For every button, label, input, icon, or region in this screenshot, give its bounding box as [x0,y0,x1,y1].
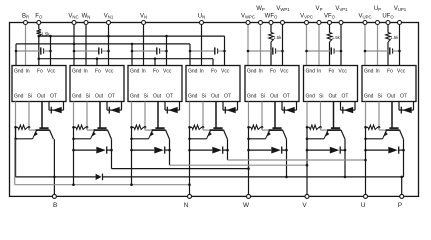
wire xFO terminal to resistor [270,23,272,33]
wire xFO terminal to resistor [329,23,331,33]
wire OT loop left stub block5 [281,102,283,111]
wire collector U-low to U bus [227,139,229,160]
svg-text:Gnd: Gnd [130,69,140,75]
svg-text:1.5k: 1.5k [273,35,282,40]
junction W bus / W riser [247,167,250,170]
junction resistor right block7 [378,126,381,129]
wire OT loop right stub block4 [237,102,239,111]
wire Gnd/emitter stub block1 [15,127,17,177]
junction Gnd stub/cap line [305,50,308,53]
wire FWD cathode block2 [107,149,112,151]
diode freewheel D6 [330,147,340,154]
capacitor Vcc-Gnd decoupling [156,47,158,54]
svg-text:VNC: VNC [68,14,78,20]
wire OT loop right stub block7 [413,102,415,111]
capacitor Vcc-Gnd decoupling [214,47,216,54]
driver IC block U6 [304,66,358,102]
svg-text:Fo: Fo [329,69,335,75]
junction resistor right block2 [86,126,89,129]
capacitor Vcc-Gnd decoupling [272,47,274,54]
diode freewheel D5 [271,147,281,154]
wire resistor to Fo pin [270,42,272,66]
wire resistor to Fo pin [329,42,331,66]
junction Gnd stub/cap line [247,50,250,53]
wire FWD cathode block4 [223,149,228,151]
wire xFO terminal to resistor [387,23,389,33]
wire OT loop bottom block3 [165,109,180,111]
wire Fo stub block3 [154,59,156,66]
wire Fo stub block2 [96,59,98,66]
wire FWD cathode block3 [165,149,170,151]
svg-text:FO: FO [35,14,43,20]
wire emitter block4 [190,138,207,140]
svg-text:WP: WP [256,6,265,12]
wire capacitor to Vcc [276,50,283,52]
driver IC block U4 [186,66,240,102]
wire collector W-high to P bus [286,139,288,177]
wire Gnd/emitter stub block7 [365,127,367,196]
wire Si to channel bar block1 [28,127,30,130]
terminal B [52,194,56,198]
capacitor Vcc-Gnd decoupling [40,47,42,54]
wire FO resistor down to block1 Fo pin [38,36,40,65]
svg-text:Out: Out [37,93,46,99]
svg-text:In: In [317,69,321,75]
junction cap/Vcc stub [165,50,168,53]
wire collector U-high to P bus [403,139,405,177]
junction resistor right block4 [202,126,205,129]
wire VNC terminal to block2 Gnd pin [73,23,75,66]
wire Si stub block7 [378,102,380,128]
resistor 1.5k high-side FO [327,33,332,43]
diode freewheel D4 [212,147,222,154]
wire Gnd/emitter stub block2 [73,127,75,184]
junction Gnd bus VNC [73,43,76,46]
junction emitter/Gnd stub block1 [14,138,17,141]
wire Gnd pin stub block6 [306,102,308,128]
transistor IGBT Q7 [391,102,393,129]
svg-text:VWP1: VWP1 [276,6,290,12]
junction emitter/Gnd stub block4 [188,138,191,141]
terminal W [247,194,251,198]
junction emitter/Gnd stub block2 [72,138,75,141]
wire capacitor to Vcc [218,50,225,52]
wire Si to channel bar block6 [320,127,322,130]
svg-text:In: In [376,69,380,75]
junction FWD/collector block6 [344,149,347,152]
svg-text:Fo: Fo [37,69,43,75]
wire OT loop right stub block2 [121,102,123,111]
svg-text:VWPC: VWPC [241,14,255,20]
junction P-bus line / B riser [53,176,56,179]
junction FO bus C [38,57,41,60]
junction U bus / U riser [364,159,367,162]
wire VN1 terminal to block2 Vcc pin [108,23,110,66]
wire VxPC terminal to Gnd pin [364,23,366,66]
junction Vcc bus block1 stub [49,35,52,38]
wire capacitor to Vcc [393,50,400,52]
svg-text:Si: Si [28,93,32,99]
wire Fo stub block4 [212,59,214,66]
svg-text:Fo: Fo [95,69,101,75]
junction Gnd stub/cap line [73,50,76,53]
terminal U [364,194,368,198]
resistor 1.5k high-side FO [269,33,274,43]
terminal UN [200,21,204,25]
svg-text:Fo: Fo [211,69,217,75]
wire Gnd pin stub block2 [73,102,75,128]
terminal VUP1 [398,21,402,25]
terminal VVPC [305,21,309,25]
svg-text:Gnd: Gnd [14,93,24,99]
resistor gate/sense block1 [18,125,28,129]
capacitor Vcc-Gnd decoupling [389,47,391,54]
wire Gnd/emitter stub block5 [248,127,250,196]
wire Si stub block4 [202,102,204,128]
junction Fo bus block2 stub [96,57,99,60]
junction Gnd stub/cap line [364,50,367,53]
junction FWD/collector block3 [168,149,171,152]
terminal BR [24,21,28,25]
wire Si to channel bar block5 [261,127,263,130]
transistor IGBT Q1 [41,102,43,129]
transistor IGBT Q3 [157,102,159,129]
svg-text:B: B [53,202,57,209]
svg-text:Gnd: Gnd [188,69,198,75]
wire Si stub block5 [261,102,263,128]
wire OT loop bottom block1 [49,109,64,111]
junction resistor left block4 [188,126,191,129]
P bus left segment from brake emitter stub [16,176,96,178]
junction emitter/Gnd stub block5 [247,138,250,141]
svg-text:U: U [361,202,366,209]
wire Gnd pin stub block7 [365,102,367,128]
svg-text:Gnd: Gnd [247,93,257,99]
junction V bus / V riser [306,164,309,167]
wire FWD anode block5 [249,149,272,151]
svg-text:Si: Si [202,93,206,99]
wire VxP1 terminal to Vcc pin [399,23,401,66]
svg-text:Fo: Fo [387,69,393,75]
wire Gnd to capacitor [307,50,332,52]
svg-text:VVPC: VVPC [300,14,313,20]
terminal FO [37,21,41,25]
svg-text:Gnd: Gnd [364,69,374,75]
wire Gnd pin stub block5 [248,102,250,128]
svg-text:WN: WN [82,14,91,20]
terminal VFO [328,21,332,25]
wire OT loop left stub block1 [48,102,50,111]
junction cap/Vcc stub [49,50,52,53]
wire Gnd pin stub block3 [131,102,133,128]
junction resistor right block6 [319,126,322,129]
wire OT loop right stub block5 [296,102,298,111]
diode freewheel D2 [96,147,106,154]
diode temperature sense block4 [226,107,236,113]
junction FWD/collector block7 [402,149,405,152]
svg-text:UFO: UFO [382,14,394,20]
terminal N [188,194,192,198]
resistor gate/sense block5 [251,125,261,129]
terminal VN [142,21,146,25]
wire WN input to block2 In pin [85,23,87,66]
svg-text:VUP1: VUP1 [394,6,407,12]
junction N bus block2 stub [72,183,75,186]
transistor IGBT Q4 [215,102,217,129]
low-side Gnd bus [16,43,190,45]
svg-text:Gnd: Gnd [188,93,198,99]
svg-text:Vcc: Vcc [47,69,56,75]
svg-text:UN: UN [198,14,205,20]
wire VN input to block3 In pin [143,23,145,66]
junction Fo bus block3 stub [154,57,157,60]
svg-text:Vcc: Vcc [221,69,230,75]
wire collector V-low to V bus [169,139,171,165]
transistor IGBT Q6 [333,102,335,129]
svg-text:OT: OT [342,93,349,99]
wire Gnd pin stub block1 [15,102,17,128]
junction cap/Vcc stub [340,50,343,53]
diode temperature sense block1 [52,107,62,113]
junction FWD/collector block4 [226,149,229,152]
terminal WP [259,21,263,25]
W phase bus [112,168,249,170]
resistor gate/sense block4 [192,125,202,129]
svg-text:Out: Out [211,93,220,99]
terminal P [400,194,404,198]
svg-text:OT: OT [108,93,115,99]
diode temperature sense block2 [110,107,120,113]
junction FWD/emitter stub block7 [364,149,367,152]
junction cap/Vcc stub [398,50,401,53]
driver IC block U3 [128,66,182,102]
junction P bus / P riser [400,176,403,179]
svg-text:Si: Si [86,93,90,99]
svg-text:Si: Si [144,93,148,99]
wire FO terminal to resistor [38,23,40,30]
svg-text:In: In [84,69,88,75]
svg-text:Out: Out [387,93,396,99]
wire Gnd pin stub block4 [189,102,191,128]
junction resistor right block5 [261,126,264,129]
module outline border [10,23,419,197]
svg-text:Si: Si [378,93,382,99]
transistor IGBT Q2 [99,102,101,129]
svg-text:In: In [26,69,30,75]
terminal WFO [269,21,273,25]
resistor gate/sense block3 [134,125,144,129]
wire Gnd to capacitor [74,50,99,52]
wire Si to channel bar block4 [202,127,204,130]
terminal V [305,194,309,198]
low-side Vcc bus [39,35,225,37]
junction resistor left block6 [306,126,309,129]
wire Si stub block3 [144,102,146,128]
svg-text:V: V [302,202,307,209]
svg-text:Vcc: Vcc [339,69,348,75]
junction Vcc bus VN1 [107,35,110,38]
terminal VP [317,21,321,25]
junction FWD/collector block5 [285,149,288,152]
V phase bus [170,164,308,166]
wire Vcc stub block4 [224,36,226,65]
svg-text:BR: BR [22,14,29,20]
wire Vcc stub block1 [50,36,52,65]
svg-text:In: In [200,69,204,75]
wire VxP1 terminal to Vcc pin [340,23,342,66]
svg-text:W: W [243,202,250,209]
wire FWD cathode block5 [282,149,287,151]
junction emitter/Gnd stub block3 [130,138,133,141]
driver IC block U5 [245,66,299,102]
diode temperature sense block3 [168,107,178,113]
junction FWD/emitter stub block6 [306,149,309,152]
terminal UP [376,21,380,25]
junction FWD/collector block2 [110,149,113,152]
svg-text:Vcc: Vcc [397,69,406,75]
wire capacitor to Vcc [334,50,341,52]
diode temperature sense block5 [285,107,295,113]
wire emitter block2 [74,138,91,140]
wire UN input to block4 In pin [201,23,203,66]
wire Vcc stub block3 [166,36,168,65]
wire Gnd/emitter stub block4 [189,127,191,196]
svg-text:Gnd: Gnd [364,93,374,99]
diode brake freewheel to P [96,174,102,180]
wire OT loop right stub block6 [354,102,356,111]
wire OT loop right stub block1 [63,102,65,111]
svg-text:VVP1: VVP1 [335,6,348,12]
wire OT loop left stub block2 [106,102,108,111]
wire Gnd to capacitor [365,50,390,52]
wire OT loop left stub block4 [222,102,224,111]
svg-text:Out: Out [95,93,104,99]
svg-text:1.5k: 1.5k [390,35,399,40]
terminal VUPC [363,21,367,25]
junction N bus / N riser [188,183,191,186]
junction P bus / V-high collector [344,176,347,179]
junction FO/Vcc bus A [38,35,41,38]
wire FWD anode block4 [190,149,213,151]
terminal VWPC [246,21,250,25]
terminal VWP1 [281,21,285,25]
wire Si stub block1 [28,102,30,128]
wire resistor to Fo pin [387,42,389,66]
wire FWD anode block7 [366,149,389,151]
wire FWD anode block3 [132,149,155,151]
wire OT loop left stub block7 [398,102,400,111]
junction FWD/emitter stub block2 [72,149,75,152]
wire xP input to In pin [318,23,320,66]
U phase bus [228,159,366,161]
wire xP input to In pin [377,23,379,66]
svg-text:VP: VP [316,6,323,12]
wire emitter block5 [249,138,266,140]
junction Vcc bus block3 stub [165,35,168,38]
svg-text:Out: Out [270,93,279,99]
capacitor Vcc-Gnd decoupling [330,47,332,54]
junction emitter/Gnd stub block6 [306,138,309,141]
wire Gnd to capacitor [16,50,41,52]
wire emitter block6 [307,138,324,140]
driver IC block U2 [70,66,124,102]
junction resistor left block2 [72,126,75,129]
svg-text:WFO: WFO [265,14,278,20]
wire collector V-high to P bus [344,139,346,177]
junction resistor left block5 [247,126,250,129]
junction cap/Vcc stub [223,50,226,53]
diode freewheel D3 [154,147,164,154]
diode freewheel D7 [388,147,398,154]
wire brake collector / B riser [53,139,55,196]
wire Si to channel bar block7 [378,127,380,130]
wire emitter block3 [132,138,149,140]
wire Gnd stub block1 [15,44,17,66]
wire OT loop right stub block3 [179,102,181,111]
wire OT loop bottom block2 [107,109,122,111]
svg-text:Vcc: Vcc [280,69,289,75]
junction FWD/emitter stub block3 [130,149,133,152]
wire Gnd to capacitor [248,50,273,52]
P bus [103,176,404,178]
wire Gnd to capacitor [190,50,215,52]
wire emitter block1 [16,138,33,140]
wire FWD cathode block7 [399,149,404,151]
svg-text:In: In [142,69,146,75]
wire Gnd stub block4 [189,44,191,66]
junction N bus block3 stub [130,183,133,186]
wire Si stub block6 [320,102,322,128]
wire emitter block7 [366,138,383,140]
wire FWD anode block2 [74,149,97,151]
svg-text:Gnd: Gnd [130,93,140,99]
svg-text:Out: Out [153,93,162,99]
low-side Fo bus [39,58,213,60]
wire Si to channel bar block2 [86,127,88,130]
N emitter bus [15,184,190,186]
svg-text:OT: OT [166,93,173,99]
terminal UFO [386,21,390,25]
junction Gnd bus block3 stub [131,43,134,46]
svg-text:VN: VN [140,14,147,20]
wire Gnd/emitter stub block6 [306,127,308,196]
terminal VVP1 [339,21,343,25]
wire OT loop bottom block4 [223,109,238,111]
wire VxPC terminal to Gnd pin [247,23,249,66]
junction resistor right block1 [28,126,31,129]
wire Si stub block2 [86,102,88,128]
resistor 1.5k low-side FO pull-up [37,29,42,36]
wire capacitor to Vcc [160,50,167,52]
wire P riser to terminal [401,177,403,197]
resistor 1.5k high-side FO [386,33,391,43]
junction cap/Vcc stub [281,50,284,53]
svg-text:Gnd: Gnd [247,69,257,75]
svg-text:OT: OT [50,93,57,99]
wire capacitor to Vcc [44,50,51,52]
svg-text:Si: Si [261,93,265,99]
wire Gnd/emitter stub block3 [131,127,133,184]
svg-text:P: P [398,202,402,209]
svg-text:OT: OT [224,93,231,99]
wire capacitor to Vcc [102,50,109,52]
terminal VN1 [107,21,111,25]
svg-text:Vcc: Vcc [163,69,172,75]
resistor gate/sense block6 [310,125,320,129]
svg-text:UP: UP [374,6,381,12]
resistor gate/sense block7 [368,125,378,129]
junction Gnd stub/cap line [189,50,192,53]
